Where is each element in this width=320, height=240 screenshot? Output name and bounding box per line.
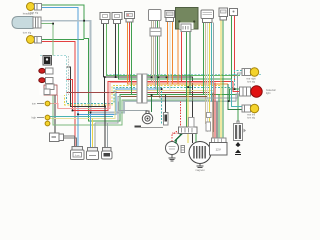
junction dots [104,76,106,78]
battery bundle teal [212,93,214,138]
wire ribbon connC [203,23,205,95]
darkgreen arrow wire regulator [175,134,182,142]
switch darkred outline [44,85,57,95]
wire green connD [222,20,224,138]
small resistor between circles [181,146,185,153]
red bulb brake [240,87,251,96]
wire black from switch [53,67,193,118]
CDI unit [176,8,199,30]
indicator lamp 2 [45,115,50,120]
upper bus light green [107,24,241,76]
wire gray horn feed [119,101,148,110]
wire green RB [230,89,240,101]
svg-text:turn sig: turn sig [247,80,256,83]
svg-text:turn sig: turn sig [247,116,256,119]
battery bundle green [218,95,220,138]
red dashed wire regulator [172,128,181,142]
wire darkgreen horn [151,95,153,112]
wire orange2 connB [172,22,174,85]
svg-text:12V: 12V [216,148,221,152]
magneto [189,142,211,164]
keyswitch wires [63,136,75,147]
turn signal TS1 bulb [27,3,35,11]
horn [142,113,152,123]
svg-text:magneto: magneto [195,169,205,172]
battery bundle red [214,83,216,138]
upper bus orange [128,22,229,84]
black wire box [189,118,195,128]
wire darkred from switch [60,84,210,93]
spark plug bottom [235,150,241,154]
wire blue TS1 [42,8,161,115]
magneto connector [179,127,198,134]
switch assembly box [40,56,67,96]
headlight socket [33,17,41,28]
top connector 2 [112,13,122,20]
wire red CDI [181,32,183,82]
switch small rect 1 [46,84,54,90]
connector C wide [201,10,214,19]
lower bus gray2 [95,96,207,122]
svg-text:high: high [31,117,36,120]
inline connector yellow wire upper [207,113,212,118]
bottom connector 1 [72,147,83,151]
wire gray YB1 [160,73,243,98]
regulator ground [171,155,173,159]
spark plug top [236,142,241,147]
wire teal YB2 [232,79,243,107]
wire green TS1 loop [42,5,238,122]
bottom connector 2 [88,148,98,152]
horn ground bar [135,126,142,128]
CDI plug [181,24,191,32]
wire black switch to keyswitch [54,95,56,133]
battery connector [212,138,227,143]
switch small rect 2 [44,89,50,95]
turn signal TS2 bulb [27,36,35,44]
wire darkgreen CDI [189,32,191,95]
wire yellow dashed from switch [65,60,222,105]
inline connector yellow wire lower [206,122,211,131]
indicator lamp 3 [45,121,50,126]
bottom connector1 wires [77,114,79,147]
upper bus darkred2 [121,95,207,97]
battery bundle black [216,101,218,138]
boxA inline connector [150,28,161,36]
wire red conn3 [129,22,131,81]
darkgreen arrowhead [174,141,177,144]
bus inline connector [137,74,142,103]
bottom connector3 wires [104,107,106,149]
top connector 3 [125,12,135,19]
wire green YB2 [228,84,242,109]
wire red2 from switch [53,80,233,111]
bottom connector2 wires [90,113,92,149]
coil arrow [244,129,247,133]
battery body [210,143,228,156]
switch icon [43,56,52,66]
ignition coil [234,124,243,141]
wire red TS2 [42,42,75,148]
fuse component [164,113,169,126]
yellow bulb right 1 [242,69,251,76]
box A rectifier [149,10,162,21]
lamp3 wire green lower [41,24,210,125]
key switch [50,133,60,142]
wire teal dashed from switch [40,56,235,104]
bottom connector 3 [103,148,112,152]
wire gray headlight [41,21,236,113]
wire red RB [233,81,240,91]
wire white connB [169,22,171,91]
TS1 socket [35,4,42,11]
wire green connE [231,16,233,80]
wire green CDI [186,32,188,128]
lamp2 wire teal [50,115,113,117]
top connector 1 [100,13,110,20]
wire teal YB1 [235,71,243,88]
magneto ground [199,164,201,167]
switch red button 2 [39,78,45,83]
wire fuse lead [165,95,167,113]
regulator circle [166,142,179,155]
wire yellow connD [220,20,222,138]
wire teal fuse [161,88,163,125]
connector B [165,11,175,18]
wire black conn1 [103,24,105,78]
upper bus green conn2 [119,24,232,107]
lamp2 wire pale yellow [50,91,213,119]
wire bundle boxA [151,21,153,82]
svg-text:light: light [266,92,271,95]
TS2 socket [35,37,42,44]
upper bus teal dash top [106,73,262,75]
indicator lamp 1 [45,101,50,106]
yellow bulb right 2 [242,105,251,112]
wire red connE [234,16,236,82]
wire green TS2 [42,39,84,41]
lamp1 wire salmon [50,83,214,109]
wire salmon riser switch [57,95,59,109]
wire gray RB [236,94,240,101]
switch red button 1 [39,68,45,73]
wire green conn3 [131,22,133,95]
wire black conn2 [115,24,117,78]
wires into magneto connector [180,101,182,127]
CDI notch [180,23,194,30]
svg-text:4-pin: 4-pin [75,155,81,157]
svg-text:headlight: headlight [23,12,34,16]
wires magneto connector to magneto [187,134,189,144]
headlight body [12,17,33,29]
svg-text:turn sig: turn sig [23,31,32,35]
connector D [219,8,228,17]
svg-text:turn: turn [32,103,37,106]
wire orange connB [167,22,169,85]
connector E [230,9,238,16]
